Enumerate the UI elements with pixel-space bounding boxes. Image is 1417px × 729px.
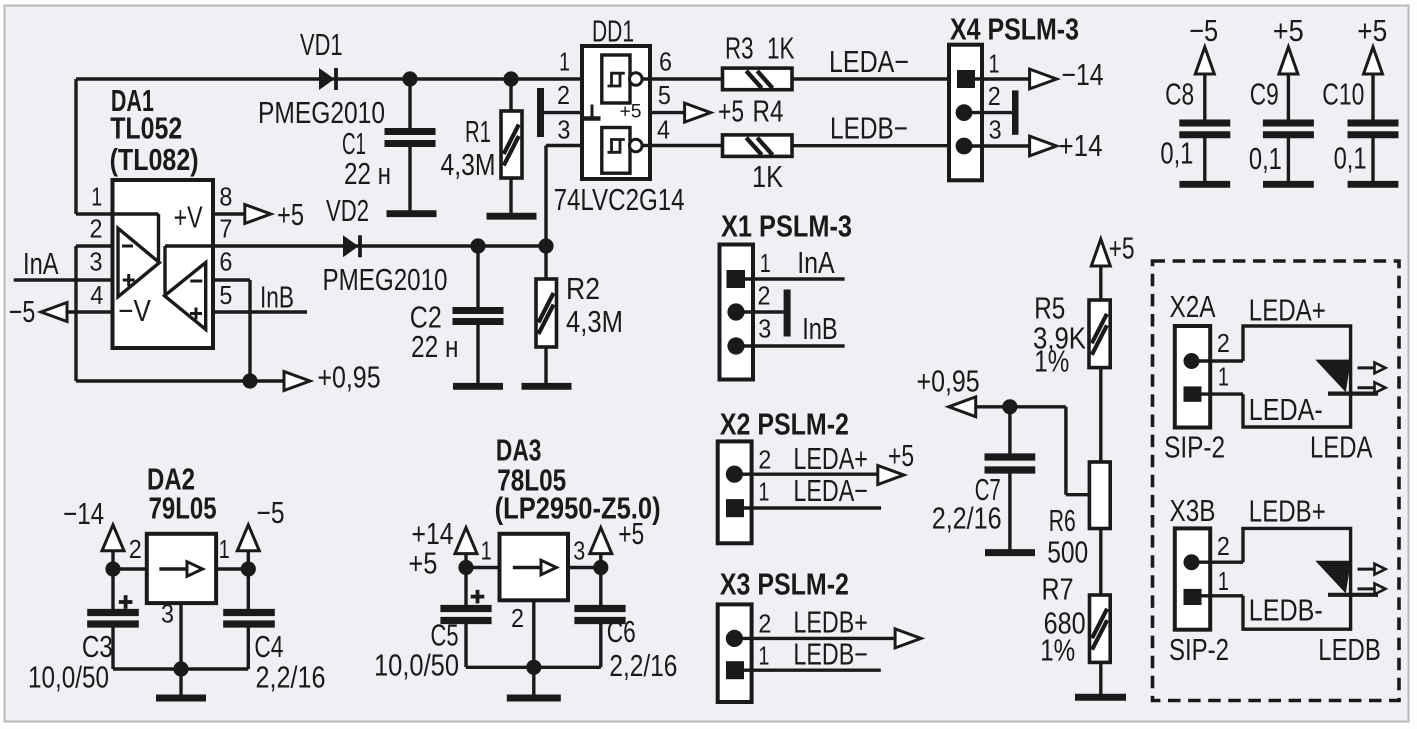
svg-text:3: 3: [161, 598, 174, 628]
label +14: [1059, 129, 1103, 163]
svg-text:X1 PSLM-3: X1 PSLM-3: [721, 210, 852, 244]
label DA1 designator: [110, 84, 199, 177]
svg-text:LEDB: LEDB: [1318, 633, 1381, 667]
svg-text:C4: C4: [254, 630, 283, 664]
port +14 arrow at X4 pin3: [1030, 136, 1057, 156]
svg-text:4,3M: 4,3M: [566, 305, 623, 339]
DA2 pin2 number: [129, 534, 142, 564]
diode VD1: [319, 68, 336, 90]
label R5 3,9K 1%: [1033, 292, 1086, 379]
DA1 pin numbers right: [219, 182, 232, 310]
supply arrow -14 at DA2 pin2: [102, 525, 124, 569]
svg-text:1: 1: [219, 534, 230, 564]
X4 pin2 number: [988, 81, 1001, 111]
svg-text:+14: +14: [1059, 129, 1103, 163]
port +5 arrow at DD1 pin5: [650, 103, 711, 122]
label C7: [932, 473, 1002, 536]
node junction R2 on VD2 rail: [538, 238, 553, 253]
svg-text:22 н: 22 н: [411, 330, 459, 364]
label C8: [1165, 78, 1194, 112]
label X2 PSLM-2: [720, 408, 849, 442]
svg-text:LEDA-: LEDA-: [1249, 393, 1323, 427]
label LEDA-: [829, 45, 909, 79]
wire DA2 pin3 to rail: [179, 603, 182, 669]
capacitor C3 polarized: [87, 569, 139, 669]
capacitor C6: [574, 568, 625, 668]
wire LEDB- from R4 to X4 pin3: [792, 144, 949, 147]
svg-text:3: 3: [573, 535, 585, 565]
DA3 pin2 number: [511, 603, 524, 633]
svg-text:+5: +5: [618, 517, 644, 551]
svg-text:LEDA: LEDA: [1310, 431, 1373, 465]
svg-text:2,2/16: 2,2/16: [256, 661, 326, 695]
svg-text:R7: R7: [1042, 573, 1074, 607]
DD1 internal ground symbol at pin2: [584, 105, 601, 119]
port +5 arrow at DA1 pin8: [213, 205, 271, 224]
label +5 above C9: [1273, 14, 1304, 48]
node DA2 ground junction: [173, 661, 188, 695]
X4 pin2 circle contact: [956, 104, 1012, 121]
X2 pin1 square contact with LEDA- wire: [726, 499, 881, 517]
label LEDB-: [830, 112, 908, 146]
wire InB to DA1 pin5: [213, 310, 307, 313]
label InA: [23, 247, 59, 281]
svg-text:0,1: 0,1: [1334, 142, 1367, 176]
LED LEDA diode: [1315, 360, 1378, 394]
svg-text:+5: +5: [1109, 232, 1135, 266]
X2 pin2 circle contact with LEDA+ wire: [726, 466, 877, 483]
svg-text:22 н: 22 н: [344, 157, 391, 191]
capacitor C7: [985, 407, 1036, 550]
svg-text:−14: −14: [63, 497, 104, 531]
connector X3B SIP-2 body: [1175, 528, 1210, 629]
label 74LVC2G14: [554, 183, 685, 217]
node junction C2 on VD2 rail: [470, 238, 485, 253]
ground below R2: [522, 383, 572, 390]
svg-text:R4: R4: [753, 95, 784, 129]
svg-text:3: 3: [90, 247, 103, 277]
label -14: [1062, 58, 1104, 92]
logic IC DD1 74LVC2G14 body: [582, 46, 650, 179]
svg-text:+5: +5: [1357, 14, 1387, 48]
svg-text:LEDB+: LEDB+: [1249, 495, 1326, 529]
label 0,1 value of C10: [1334, 142, 1367, 176]
label R3 1K: [725, 32, 795, 66]
svg-text:5: 5: [658, 80, 671, 110]
op-amp U DA1 body: [113, 180, 214, 348]
diode VD2: [343, 235, 360, 257]
svg-text:2: 2: [511, 603, 524, 633]
port arrow at X3 pin2: [895, 629, 921, 648]
label -5 above C8: [1189, 14, 1218, 48]
svg-text:R5: R5: [1034, 292, 1065, 326]
X3 pin1 number and LEDB- label: [758, 638, 868, 672]
label +5 above C10: [1357, 14, 1387, 48]
label DD1 designator: [592, 15, 634, 49]
svg-text:3: 3: [758, 314, 771, 344]
X4 pin3 circle contact: [956, 138, 1030, 155]
svg-text:X2 PSLM-2: X2 PSLM-2: [720, 408, 849, 442]
label R2: [566, 272, 623, 339]
node junction C1 on top rail: [402, 71, 417, 86]
supply arrow +14 at DA3 pin1: [455, 528, 477, 568]
DD1 inverter A box with schmitt symbol: [602, 55, 630, 103]
supply arrow above C8: [1195, 47, 1214, 120]
svg-text:DA3: DA3: [496, 434, 542, 468]
svg-text:6: 6: [659, 46, 672, 76]
LED LEDB diode: [1315, 561, 1378, 595]
label DA2 designator: [147, 463, 217, 526]
svg-text:InB: InB: [260, 281, 294, 315]
wire InA input to DA1 pin3: [14, 278, 113, 281]
wire LED loop for LEDB: [1243, 528, 1351, 629]
DA3 pin3 number: [573, 535, 585, 565]
svg-text:−5: −5: [1189, 14, 1218, 48]
svg-text:+5: +5: [620, 102, 642, 123]
svg-text:2: 2: [988, 81, 1001, 111]
label R7 680 1%: [1040, 573, 1085, 668]
wire R6 wiper tap to +0,95 node: [976, 407, 1089, 495]
label SIP-2 for X2A: [1164, 431, 1225, 465]
DA2 pin3 number: [161, 598, 174, 628]
svg-text:4: 4: [657, 115, 670, 145]
svg-text:LEDA+: LEDA+: [793, 442, 868, 476]
label -5: [257, 496, 285, 530]
supply arrow +5 at DA3 pin3: [590, 528, 612, 568]
svg-text:0,1: 0,1: [1160, 136, 1193, 170]
node DA3 ground junction: [526, 660, 541, 695]
svg-text:74LVC2G14: 74LVC2G14: [554, 183, 685, 217]
svg-text:3: 3: [989, 115, 1002, 145]
label R1: [441, 115, 496, 182]
resistor R5: [1089, 300, 1110, 368]
wire R5 to R6: [1099, 368, 1102, 462]
resistor R4: [723, 135, 793, 157]
label X1 PSLM-3: [721, 210, 852, 244]
DA1 pin numbers left: [90, 182, 104, 310]
svg-text:LEDB−: LEDB−: [830, 112, 908, 146]
port +0,95 arrow: [284, 372, 310, 391]
X3B pin numbers: [1217, 531, 1230, 596]
DA2 pin1 number: [219, 534, 230, 564]
wire DA1 pin6 to +0,95 rail: [213, 280, 250, 381]
label C2: [410, 301, 459, 364]
regulator DA2 79L05 body with arrow: [147, 534, 216, 603]
node C7 junction: [1002, 399, 1017, 414]
label VD1: [300, 28, 343, 62]
label 0,1 value of C9: [1249, 142, 1282, 176]
svg-text:1K: 1K: [767, 32, 795, 66]
svg-text:2: 2: [758, 445, 771, 475]
label LEDB: [1318, 633, 1381, 667]
svg-text:InA: InA: [797, 246, 835, 280]
label C10: [1322, 78, 1364, 112]
ground below C7: [985, 549, 1035, 556]
svg-text:2: 2: [129, 534, 142, 564]
label -5: [9, 295, 36, 329]
svg-text:(TL082): (TL082): [110, 143, 199, 177]
supply arrow above C10: [1364, 47, 1383, 120]
capacitor C2: [453, 246, 504, 384]
connector X2A SIP-2 body: [1175, 326, 1210, 428]
svg-text:10,0/50: 10,0/50: [374, 649, 459, 683]
svg-text:1: 1: [1218, 362, 1229, 392]
svg-text:LEDA−: LEDA−: [829, 45, 909, 79]
label +5 at pin8: [277, 198, 304, 232]
svg-text:1: 1: [760, 248, 771, 278]
svg-text:SIP-2: SIP-2: [1169, 633, 1229, 667]
svg-text:InA: InA: [23, 247, 59, 281]
label SIP-2 for X3B: [1169, 633, 1229, 667]
ground terminal bar at X1 pin2: [784, 290, 791, 337]
svg-text:−V: −V: [118, 294, 151, 328]
X3 pin1 square contact with LEDB- wire: [726, 661, 881, 679]
X3B pin2 circle contact: [1184, 554, 1244, 570]
label DA1 +V: [174, 201, 203, 235]
wire VD2 rail from DA1 pin7: [213, 244, 546, 247]
label X3B: [1170, 494, 1216, 528]
capacitor C4: [223, 569, 275, 669]
wire DD1 pin3 to VD2 rail: [546, 146, 602, 247]
connector X2 PSLM-2 body: [718, 441, 752, 543]
svg-text:LEDB−: LEDB−: [793, 638, 868, 672]
svg-text:+0,95: +0,95: [317, 361, 380, 395]
svg-text:PMEG2010: PMEG2010: [323, 263, 448, 297]
LED LEDB light arrows: [1358, 564, 1386, 595]
port -5 arrow at DA1 pin4: [41, 303, 113, 322]
svg-text:2: 2: [758, 280, 771, 310]
label +5 inside DD1 at pin5: [620, 102, 642, 123]
svg-text:InB: InB: [802, 312, 838, 346]
resistor R2: [536, 246, 557, 384]
label LEDB+: [1249, 495, 1326, 529]
X4 pin3 number: [989, 115, 1002, 145]
ground below C10: [1348, 181, 1399, 188]
label 1K below R4: [752, 160, 783, 194]
label LEDB-: [1249, 594, 1323, 628]
X1 pin1 square contact with InA wire: [727, 270, 845, 288]
ground terminal bar at X4 pin2: [1012, 90, 1019, 134]
svg-text:+5: +5: [408, 547, 437, 581]
svg-text:X2A: X2A: [1170, 290, 1217, 324]
svg-text:1: 1: [758, 641, 769, 671]
svg-text:8: 8: [219, 182, 232, 212]
svg-text:TL052: TL052: [110, 112, 182, 146]
svg-text:2: 2: [1217, 531, 1230, 561]
label +5 at DD1 pin5: [718, 95, 744, 129]
svg-text:X3 PSLM-2: X3 PSLM-2: [720, 568, 849, 602]
ground below C1: [387, 210, 437, 217]
node DA3 input junction: [458, 560, 499, 575]
svg-text:5: 5: [219, 280, 232, 310]
label PMEG2010 for VD2: [323, 263, 448, 297]
svg-text:C5: C5: [431, 619, 459, 653]
capacitor C10: [1348, 123, 1399, 182]
label R6 500: [1047, 504, 1088, 569]
wire R6 to R7: [1099, 529, 1102, 596]
svg-text:6: 6: [219, 247, 232, 277]
svg-text:DD1: DD1: [592, 15, 634, 49]
label C4: [254, 630, 325, 695]
port -14 arrow at X4 pin1: [1030, 69, 1057, 89]
svg-text:4: 4: [90, 280, 103, 310]
wire LED loop for LEDA: [1243, 326, 1351, 427]
svg-text:1%: 1%: [1040, 634, 1075, 668]
supply arrow -5 at DA2 pin1: [237, 525, 259, 569]
label +0,95 at R6: [917, 365, 980, 399]
svg-text:2: 2: [1217, 328, 1230, 358]
svg-text:VD1: VD1: [300, 28, 343, 62]
wire DA1 internal pin7 to amp B output: [165, 246, 213, 294]
ground below R1: [487, 213, 537, 220]
label X2A: [1170, 290, 1217, 324]
X3 pin2 number and LEDB+ label: [758, 605, 868, 639]
X2A pin2 circle contact: [1184, 353, 1244, 369]
label VD2: [326, 194, 369, 228]
svg-text:−14: −14: [1062, 58, 1104, 92]
svg-text:R6: R6: [1049, 504, 1076, 538]
label 0,1 value of C8: [1160, 136, 1193, 170]
supply arrow +5 above R5: [1091, 239, 1110, 300]
connector X3 PSLM-2 body: [718, 604, 752, 702]
svg-text:1: 1: [559, 46, 570, 76]
label -14: [63, 497, 104, 531]
label C6: [607, 615, 678, 683]
svg-text:C9: C9: [1250, 78, 1279, 112]
svg-text:1: 1: [91, 182, 102, 212]
DD1 inverter A output bubble: [630, 73, 723, 86]
resistor R1: [501, 79, 522, 213]
svg-text:VD2: VD2: [326, 194, 369, 228]
resistor R3: [723, 68, 793, 90]
label C9: [1250, 78, 1279, 112]
node DA2 input junction: [105, 561, 146, 576]
ground below DA3: [507, 695, 561, 702]
svg-text:+0,95: +0,95: [917, 365, 980, 399]
ground below C8: [1179, 181, 1230, 188]
ground below DA2: [156, 695, 206, 702]
X1 pin2 circle contact: [727, 303, 783, 320]
label +5 at X2: [888, 439, 914, 473]
label PMEG2010 for VD1: [258, 96, 385, 130]
wire DA1 pin2 feedback to +0,95 rail: [76, 246, 283, 381]
label DA3 designator: [495, 434, 661, 526]
trimmer resistor R6: [1089, 462, 1110, 529]
svg-text:PMEG2010: PMEG2010: [258, 96, 385, 130]
wire DA1 internal pin1 to amp A output: [113, 214, 159, 261]
svg-text:10,0/50: 10,0/50: [28, 661, 109, 695]
port +5 arrow at X2 pin2: [878, 466, 904, 485]
supply arrow above C9: [1279, 47, 1298, 120]
label X3 PSLM-2: [720, 568, 849, 602]
node DA2 output junction: [216, 561, 256, 576]
label InB: [260, 281, 294, 315]
svg-text:2,2/16: 2,2/16: [932, 502, 1002, 536]
label C5: [374, 619, 459, 683]
svg-text:4,3M: 4,3M: [441, 148, 496, 182]
svg-text:R2: R2: [566, 272, 600, 306]
DD1 pin numbers left: [557, 46, 570, 144]
capacitor C8: [1179, 123, 1230, 182]
X3B pin1 square contact: [1184, 589, 1244, 605]
node junction R1 on top rail: [503, 71, 518, 86]
DD1 pin numbers right: [657, 46, 672, 144]
node +0,95 junction: [242, 373, 257, 388]
label X4 PSLM-3: [950, 13, 1079, 47]
node DA3 output junction: [568, 560, 608, 575]
svg-text:−5: −5: [9, 295, 36, 329]
label LEDA-: [1249, 393, 1323, 427]
svg-text:2: 2: [90, 214, 103, 244]
X2 pin1 number and LEDA- label: [758, 474, 868, 508]
label C1: [342, 127, 391, 191]
svg-text:+5: +5: [277, 198, 304, 232]
svg-text:1: 1: [758, 477, 769, 507]
capacitor C1: [385, 79, 436, 211]
svg-text:500: 500: [1047, 535, 1088, 569]
X1 pin3 circle contact with InB wire: [727, 337, 844, 354]
ground below R7: [1075, 694, 1126, 701]
X4 pin1 square contact: [957, 70, 1029, 88]
connector X4 PSLM-3 body: [949, 45, 982, 181]
X1 pin3 number and InB label: [758, 312, 837, 346]
label +5 above R5: [1109, 232, 1135, 266]
svg-text:−5: −5: [257, 496, 285, 530]
wire DA3 bottom rail: [466, 666, 601, 669]
svg-text:X3B: X3B: [1170, 494, 1216, 528]
wire LEDA- from R3 to X4 pin1: [792, 77, 949, 80]
port +0,95 arrow left: [949, 397, 976, 417]
DD1 inverter B output bubble: [630, 139, 723, 152]
label +5 output: [618, 517, 644, 551]
svg-text:1: 1: [1218, 566, 1229, 596]
svg-text:LEDA−: LEDA−: [793, 474, 868, 508]
svg-text:+5: +5: [718, 95, 744, 129]
label DA1 -V: [118, 294, 151, 328]
svg-text:C1: C1: [342, 127, 366, 161]
X2A pin1 square contact: [1184, 386, 1244, 401]
X3 pin2 circle contact with LEDB+ wire: [726, 630, 894, 647]
svg-text:LEDA+: LEDA+: [1249, 294, 1326, 328]
wire DA2 bottom rail: [113, 667, 248, 670]
svg-text:+5: +5: [1273, 14, 1304, 48]
svg-text:1: 1: [481, 535, 492, 565]
svg-text:3: 3: [557, 115, 570, 145]
svg-text:+V: +V: [174, 201, 203, 235]
DD1 inverter B box with schmitt symbol: [602, 128, 630, 174]
capacitor C9: [1263, 123, 1314, 182]
svg-text:SIP-2: SIP-2: [1164, 431, 1225, 465]
wire R7 to ground: [1099, 662, 1102, 694]
label +0,95: [317, 361, 380, 395]
svg-text:C3: C3: [82, 630, 113, 664]
X1 pin2 number: [758, 280, 771, 310]
svg-text:1%: 1%: [1034, 345, 1069, 379]
connector X1 PSLM-3 body: [720, 245, 754, 380]
label +14: [412, 517, 454, 551]
resistor R7: [1090, 595, 1111, 662]
svg-text:2: 2: [557, 80, 570, 110]
X2A pin numbers: [1217, 328, 1230, 392]
svg-text:LEDB+: LEDB+: [793, 605, 868, 639]
X1 pin1 number and InA label: [760, 246, 835, 280]
svg-text:0,1: 0,1: [1249, 142, 1282, 176]
ground below C9: [1263, 181, 1314, 188]
svg-text:X4 PSLM-3: X4 PSLM-3: [950, 13, 1079, 47]
svg-text:79L05: 79L05: [149, 492, 217, 526]
svg-text:C6: C6: [607, 615, 636, 649]
svg-text:R1: R1: [465, 115, 491, 149]
